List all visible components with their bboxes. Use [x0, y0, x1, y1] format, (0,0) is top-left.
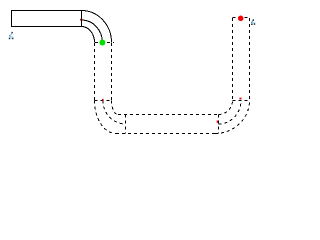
elbow E1 center arc [82, 20, 103, 43]
anchor glyph A [9, 32, 14, 39]
red tick T1 [80, 19, 82, 21]
pipe P4 right wall [249, 18, 251, 100]
pipe P3 bottom wall [116, 133, 215, 135]
joint line J1 (dashed) [95, 42, 114, 44]
elbow E2 center arc [103, 101, 126, 125]
pipe P3 top wall [118, 114, 220, 116]
joint line J5 (dashed) [233, 100, 250, 102]
elbow E1 inner arc [82, 27, 95, 43]
elbow E2 outer arc [95, 101, 117, 134]
elbow E3 center arc [219, 101, 242, 125]
elbow E2 inner arc [112, 101, 119, 115]
joint line J4 (dashed) [218, 115, 220, 134]
elbow E3 outer arc [215, 101, 250, 134]
red tick T2 [102, 99, 104, 101]
anchor glyph B [251, 19, 255, 25]
solid pipe rectangle [12, 11, 82, 27]
pipe P2 left wall [94, 43, 96, 100]
joint line J3 (dashed) [125, 115, 127, 134]
red end dot [238, 16, 244, 22]
elbow E1 outer arc [82, 11, 112, 43]
red tick T4 [239, 98, 241, 100]
joint line J2 (dashed) [95, 100, 112, 102]
green start dot [99, 40, 105, 46]
pipe P2 right wall [111, 43, 113, 100]
pipe P4 top cap (dashed) [233, 17, 250, 19]
pipe P4 left wall [232, 18, 234, 100]
elbow E3 inner arc [219, 101, 233, 115]
red tick T3 [217, 121, 218, 123]
